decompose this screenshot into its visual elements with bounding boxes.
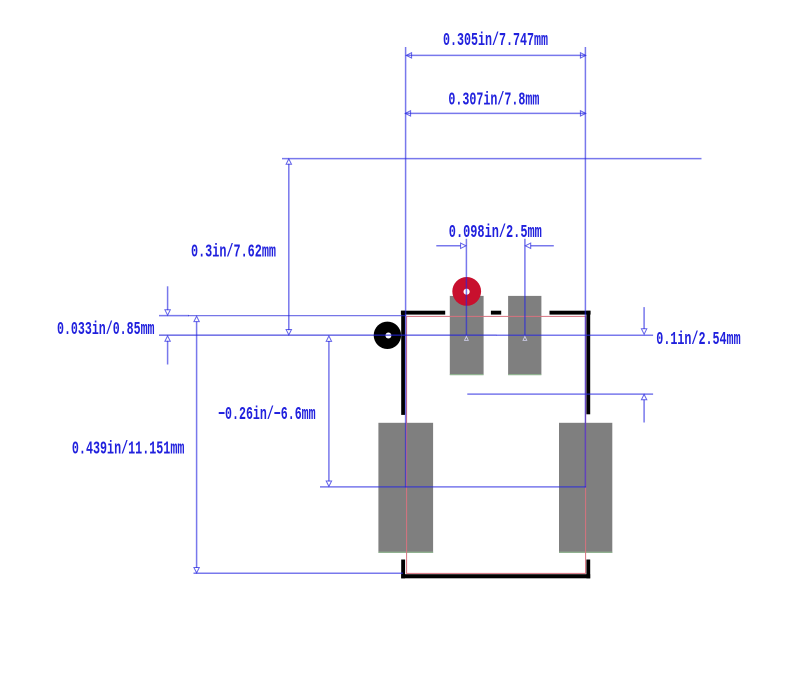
arrowhead 0.307 right arrow (points right) xyxy=(580,111,585,116)
0.033in upper arrow stem xyxy=(167,286,169,310)
svg-text:0.1in/2.54mm: 0.1in/2.54mm xyxy=(656,330,740,350)
arrowhead 0.3in bottom arrow (points down) xyxy=(286,330,291,335)
faint arrowheads at pad centers xyxy=(465,336,527,340)
bottom-left stub xyxy=(401,560,405,579)
pin 1 marker (red donut) xyxy=(452,277,481,306)
svg-text:0.3in/7.62mm: 0.3in/7.62mm xyxy=(191,242,276,262)
svg-text:−0.26in/−6.6mm: −0.26in/−6.6mm xyxy=(218,405,316,425)
dimension lines (blue) xyxy=(159,47,702,573)
dimension texts xyxy=(57,31,741,459)
bottom edge xyxy=(401,574,590,578)
0.033in lower arrow stem xyxy=(167,341,169,365)
extension line left (x~405.6) xyxy=(405,47,407,488)
pad P4 bottom-right xyxy=(559,423,612,553)
arrowhead 0.3in top arrow (points up) xyxy=(286,159,291,164)
arrowhead 0.439 top arrow (points up) xyxy=(194,316,199,321)
dim line 0.307in xyxy=(406,112,586,114)
assembly outline rectangle (pink) xyxy=(407,316,586,573)
0.3in vertical dim line x=288.8 xyxy=(288,164,290,330)
top edge segment right xyxy=(550,311,591,315)
right side vertical xyxy=(586,311,590,415)
extension line right (x~585.4) xyxy=(584,47,586,488)
pad P3 bottom-left xyxy=(378,423,433,553)
row2 centerline y=394.1 xyxy=(467,393,653,395)
0.033in top line (light part) xyxy=(159,315,189,317)
arrowhead 0.305 left arrow (points left) xyxy=(406,53,411,58)
0.098in left arrow stem xyxy=(436,245,460,247)
-0.26in dim vertical x=328.9 xyxy=(328,341,330,482)
arrowhead 0.098 right arrow (points left) xyxy=(525,243,530,248)
dim line 0.305in top xyxy=(407,54,586,56)
arrowhead 0.305 right arrow (points right) xyxy=(580,53,585,58)
arrowhead 0.1 bottom arrow (points up) xyxy=(641,394,646,399)
centerline doubled left segment xyxy=(159,334,496,336)
svg-text:0.033in/0.85mm: 0.033in/0.85mm xyxy=(57,320,155,340)
bottom dim line y=573.3 xyxy=(194,572,404,574)
svg-text:0.098in/2.5mm: 0.098in/2.5mm xyxy=(449,223,542,243)
svg-text:0.307in/7.8mm: 0.307in/7.8mm xyxy=(448,90,539,110)
arrowhead -0.26 top arrow (points up) xyxy=(326,336,331,341)
silkscreen outline (black) xyxy=(401,311,591,579)
0.1in upper arrow stem xyxy=(643,307,645,329)
svg-text:0.305in/7.747mm: 0.305in/7.747mm xyxy=(443,31,548,51)
arrowhead 0.033 bottom arrow (points up) xyxy=(165,336,170,341)
svg-text:0.439in/11.151mm: 0.439in/11.151mm xyxy=(72,439,185,459)
left side vertical xyxy=(401,311,405,415)
arrowhead 0.439 bottom arrow (points down) xyxy=(194,568,199,573)
0.439in dim vertical x=196.6 xyxy=(196,322,198,569)
faint arrowhead at pad P2 center xyxy=(523,336,527,340)
arrowhead 0.098 left arrow (points right) xyxy=(461,243,466,248)
arrowhead 0.1 top arrow (points down) xyxy=(641,329,646,334)
pad P2 top-right xyxy=(508,296,541,375)
0.098in right arrow stem xyxy=(531,245,554,247)
arrowhead -0.26 bottom arrow (points down) xyxy=(326,481,331,486)
pad P1 top-left (through-hole pin 1 pad) xyxy=(450,296,484,375)
top edge segment middle xyxy=(491,311,501,315)
horizontal reference line y=158.6 xyxy=(282,158,702,160)
top edge segment left xyxy=(401,311,445,315)
bottom-right stub xyxy=(586,560,590,579)
arrowhead 0.307 left arrow (points left) xyxy=(405,111,410,116)
0.1in lower arrow stem xyxy=(643,400,645,423)
mounting hole / pin marker (black donut) xyxy=(374,322,401,349)
pad1 center extension line xyxy=(465,239,467,336)
pad2 center extension line xyxy=(524,239,526,336)
centerline y=335.3 long xyxy=(496,334,653,336)
bottom pads centerline y=486.9 xyxy=(320,486,586,488)
arrowhead 0.033 top arrow (points down) xyxy=(165,310,170,315)
faint arrowhead at pad P1 center xyxy=(465,336,469,340)
arrowheads (blue open triangles) xyxy=(165,53,647,573)
0.439in top extension overlap (dark part) xyxy=(188,315,406,317)
